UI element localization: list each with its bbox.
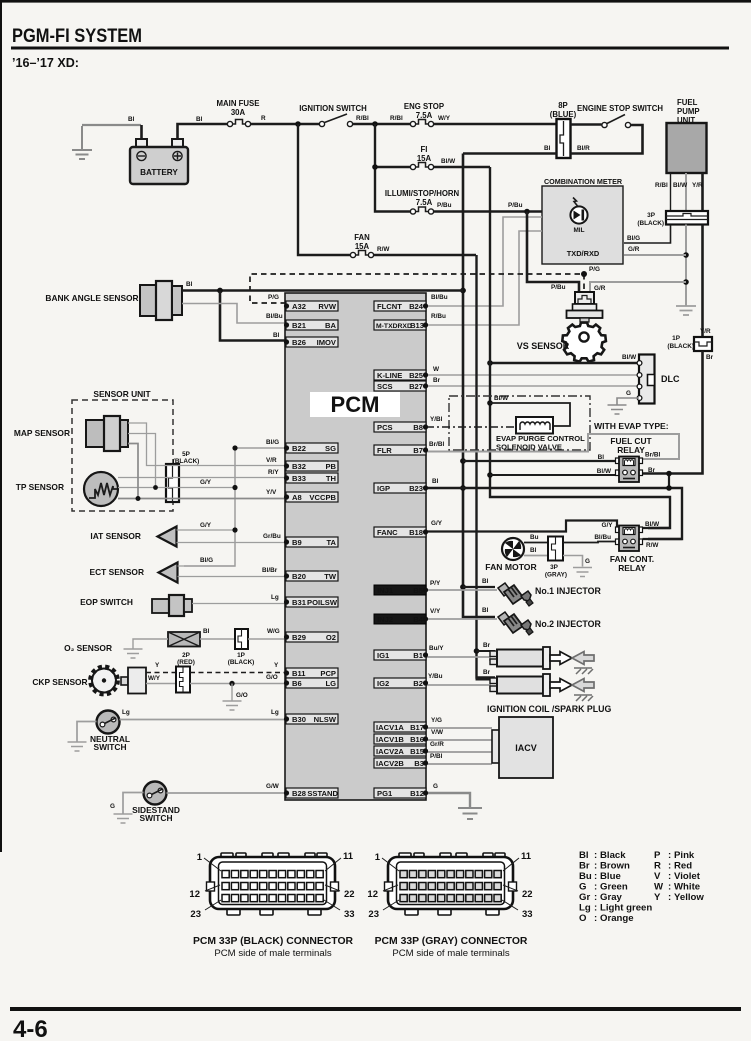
svg-text:IMOV: IMOV [317,338,337,347]
svg-text:Black: Black [600,850,626,861]
pin B22 SG [284,443,338,453]
svg-text::: : [668,861,671,872]
wire 3P fan G to ground [563,556,583,567]
pin B29 O2 [284,632,338,642]
svg-text:2P: 2P [182,652,191,659]
svg-text:B7: B7 [413,446,423,455]
PCM 33P GRAY connector drawing [367,851,532,959]
svg-text:RELAY: RELAY [617,445,645,455]
svg-text::: : [594,882,597,893]
svg-text:12: 12 [189,889,200,900]
wire neutral to ground [77,722,97,742]
svg-text:ECT SENSOR: ECT SENSOR [90,567,144,577]
page top border [0,0,751,3]
ground (O2) [124,649,143,658]
ground (DLC) [608,405,627,414]
svg-text:B5: B5 [413,586,423,595]
svg-text:EOP SWITCH: EOP SWITCH [80,597,133,607]
svg-text:FAN: FAN [354,233,370,242]
wire TP Y/V to A8 [118,498,286,500]
wire IACV1B V/W [426,739,492,741]
wire bank angle Bl to bus [182,289,463,292]
svg-text::: : [594,850,597,861]
svg-text:Bl/Bu: Bl/Bu [594,534,611,541]
wire INJ1 P/Y [426,589,497,591]
svg-text:TA: TA [326,538,336,547]
wire Bl/W branch to fuel cut relay [490,474,615,476]
svg-text:IG2: IG2 [377,679,389,688]
svg-text:30A: 30A [231,108,246,117]
svg-text:3P: 3P [550,564,559,571]
svg-text:Gr/R: Gr/R [430,741,444,748]
svg-text:(BLACK): (BLACK) [667,343,694,350]
svg-text:P: P [654,850,661,861]
svg-text::: : [594,913,597,924]
EOP switch [80,595,192,616]
wire TP wiper R/Y to B33 [118,477,286,479]
wire P/Bu branch down to VS sensor [527,212,579,296]
svg-text:Y: Y [155,662,160,669]
svg-text:G: G [626,390,631,397]
junction R/W coil1 [474,648,480,654]
wire K-LINE W to DLC [426,374,639,376]
svg-text:PCM: PCM [331,392,380,417]
svg-text::: : [594,892,597,903]
svg-text:B3: B3 [414,759,424,768]
svg-text:IACV2A: IACV2A [376,747,404,756]
svg-text:B4: B4 [413,615,423,624]
svg-text:Bl: Bl [482,578,489,585]
svg-text:Bl/W: Bl/W [441,158,456,165]
wire SCS Br to DLC [426,385,639,387]
wire MAP VCC to Y/V line [128,444,138,499]
No.2 injector [498,612,533,635]
svg-text:R/Bu: R/Bu [431,313,446,320]
svg-text:NLSW: NLSW [314,715,337,724]
svg-text:B11: B11 [292,669,306,678]
svg-text:R/W: R/W [646,542,659,549]
wire ignition switch to eng stop fuse [353,123,410,126]
svg-text:Gr/Bu: Gr/Bu [263,533,281,540]
MIL lamp icon [570,198,587,224]
svg-text:B28: B28 [292,789,306,798]
ground (CKP G/O) [223,701,242,710]
svg-text:3P: 3P [647,212,656,219]
svg-text:MIL: MIL [573,227,584,234]
svg-text:33: 33 [344,909,355,920]
svg-text:11: 11 [521,851,532,862]
pin B20 TW [284,571,338,581]
junction Bl/W fuel cut relay [487,472,493,478]
svg-text:G: G [433,783,438,790]
ignition switch [299,104,367,127]
IAT sensor [90,527,176,547]
svg-text:G: G [579,882,586,893]
svg-text:B31: B31 [292,598,307,607]
svg-text:B25: B25 [409,371,424,380]
svg-text:B16: B16 [410,735,424,744]
fan cont relay [610,526,654,574]
svg-text:FANC: FANC [377,528,398,537]
wire FANC G/Y B18 [426,521,617,532]
wire fuel cut relay Bl [463,460,616,462]
wire IAT G/Y [177,529,236,531]
ground (sidestand) [114,814,133,823]
svg-text:Bu: Bu [530,534,539,541]
svg-text:O₂ SENSOR: O₂ SENSOR [64,643,112,653]
ground (fuel pump G/R) [676,306,696,315]
svg-text:Br: Br [433,377,441,384]
pin B30 NLSW [284,714,338,724]
evap purge control solenoid valve [496,417,585,452]
footer rule [10,1007,741,1011]
pin B32 PB [284,461,338,471]
svg-text:SOLENOID VALVE: SOLENOID VALVE [496,443,562,452]
TP sensor [16,472,118,506]
wire INJ2 V/Y [426,618,497,620]
wire fan motor Bu [524,542,548,544]
svg-text:B33: B33 [292,474,306,483]
svg-text:7.5A: 7.5A [416,198,433,207]
svg-text:R/Bl: R/Bl [655,182,668,189]
fan motor [485,538,537,572]
svg-text:G/Y: G/Y [200,479,212,486]
pin IACV1A B17 [374,722,428,732]
svg-text:R/Bl: R/Bl [356,115,369,122]
svg-text:Y/R: Y/R [692,182,703,189]
svg-text:INJ1: INJ1 [377,586,394,595]
wire Bl branch injector1 [463,586,495,588]
pin IACV2B B3 [374,758,428,768]
evap dash-dot box [449,396,590,450]
fuse ILLUMI/STOP/HORN 7.5A [385,189,460,214]
pin INJ1 B5 (black) [374,585,428,595]
fuse FI 15A [410,145,433,170]
wire O2 Bl to 1P connector [200,638,235,640]
main fuse 30A [217,99,260,127]
svg-text:PCM 33P (GRAY) CONNECTOR: PCM 33P (GRAY) CONNECTOR [375,936,528,947]
wire Y dashed 2P to B11 [190,672,286,674]
svg-text:Bl: Bl [579,850,589,861]
svg-text:B8: B8 [413,423,423,432]
svg-text:15A: 15A [417,154,432,163]
svg-text:Light green: Light green [600,903,652,914]
wire DLC G to ground [617,398,639,405]
wire Bl/W vertical (FI fuse) [490,167,670,528]
svg-text:G/Y: G/Y [431,520,443,527]
combination meter [542,177,623,264]
wire 8P to engine stop switch [571,123,602,125]
wire G/R VS sensor to fuel pump ground [590,282,686,295]
pin FLCNT B24 [374,301,428,311]
svg-text:IACV1B: IACV1B [376,735,404,744]
svg-text:CKP SENSOR: CKP SENSOR [32,677,87,687]
wire 3P fan to relay Bl/Bu [563,542,616,543]
svg-text:IGP: IGP [377,484,390,493]
pin A32 RVW [284,301,338,311]
svg-text:Bl/G: Bl/G [200,557,213,564]
wire Y/R down to 1P connector [701,225,704,337]
IACV [492,717,553,778]
svg-text:B22: B22 [292,444,306,453]
svg-text:DLC: DLC [661,374,680,384]
junction bank angle Bl [217,288,223,294]
svg-text:Bl: Bl [186,281,193,288]
svg-text:SENSOR UNIT: SENSOR UNIT [93,389,151,399]
ground (PG1) [458,808,482,819]
junction Bl bus / injector1 [460,584,466,590]
connector 8P (BLUE) [550,101,577,158]
svg-text:R: R [261,115,266,122]
sidestand switch [132,782,180,824]
wire CKP Y dashed to 2P [146,672,176,674]
svg-text:P/Y: P/Y [430,580,441,587]
svg-text:PUMP: PUMP [677,107,700,116]
svg-text:PCM side of male terminals: PCM side of male terminals [392,948,509,959]
pin PCS B8 [374,422,428,432]
svg-text:W: W [433,366,440,373]
wire eng stop fuse to 8P connector [434,123,557,125]
connector 1P (BLACK) O2 [228,629,255,666]
wire Br staircase from fuel cut relay [668,474,670,489]
svg-text:B2: B2 [413,679,423,688]
svg-text:P/G: P/G [589,266,600,273]
svg-text:B26: B26 [292,338,306,347]
svg-text:Y/V: Y/V [266,489,277,496]
svg-text:23: 23 [368,909,379,920]
wire Bl vertical bus (8P to injectors) [463,154,495,618]
svg-text:TH: TH [326,474,336,483]
wire MAP to V/R B32 [128,423,286,466]
pin IACV1B B16 [374,734,428,744]
svg-text:Blue: Blue [600,871,621,882]
svg-text:7.5A: 7.5A [416,111,433,120]
wire IACV2B P/Bl [426,763,492,765]
svg-text:BANK ANGLE SENSOR: BANK ANGLE SENSOR [45,293,138,303]
wire IACV1A Y/G [426,727,492,729]
wire battery + to main fuse [142,124,228,139]
junction G/O ground [229,681,234,686]
svg-text:B23: B23 [409,484,423,493]
svg-text:Y/Bl: Y/Bl [430,416,443,423]
svg-text:G/O: G/O [236,692,248,699]
svg-text:B30: B30 [292,715,306,724]
svg-text:W: W [654,882,664,893]
svg-text:IGNITION COIL /SPARK PLUG: IGNITION COIL /SPARK PLUG [487,704,611,714]
wire B13 R/Bu to meter [426,231,542,325]
pin SCS B27 [374,381,428,391]
connector 3P (GRAY) fan [545,537,567,579]
fuse FAN 15A [350,233,373,258]
svg-text:V/R: V/R [266,457,277,464]
junction G/R vs sensor [683,279,689,285]
svg-text:15A: 15A [355,242,370,251]
wire battery ground Bl [82,124,141,126]
svg-text:R/Y: R/Y [268,469,279,476]
svg-text:Y: Y [274,662,279,669]
wire TP SG G/Y to B22 junction [118,487,235,489]
svg-text:Pink: Pink [674,850,695,861]
svg-text:P/G: P/G [268,294,279,301]
svg-text:Gray: Gray [600,892,623,903]
svg-text:Bl: Bl [530,547,537,554]
engine stop switch [577,104,663,128]
connector 5P (BLACK) [166,451,199,502]
wire IAT Gr/Bu to B9 [177,542,287,544]
svg-text:Y/Bu: Y/Bu [428,673,443,680]
wire EOP Lg to B31 [192,603,286,605]
svg-text:No.2 INJECTOR: No.2 INJECTOR [535,619,601,629]
svg-text::: : [668,892,671,903]
ground (battery) [72,126,92,159]
svg-text:1: 1 [197,852,203,863]
sensor unit dashed box [72,389,173,511]
dashed wire P/G A32 to VS sensor [250,274,584,303]
svg-text:VCCPB: VCCPB [309,493,336,502]
svg-text:G/O: G/O [266,674,278,681]
junction G/R meter [683,252,689,258]
svg-text::: : [668,882,671,893]
fuse ENG STOP 7.5A [404,102,444,127]
bank angle sensor [45,281,182,320]
svg-text:PB: PB [325,462,336,471]
svg-text:PCS: PCS [377,423,393,432]
wire G/O 2P to B6 [190,683,286,685]
ground (fan) [573,568,592,577]
wire FAN fuse R/W to bus [374,254,476,256]
pin PG1 B12 [374,788,428,798]
pin IG1 B1 [374,650,428,660]
svg-text:PCM 33P (BLACK) CONNECTOR: PCM 33P (BLACK) CONNECTOR [193,936,354,947]
svg-text:Y/R: Y/R [700,328,711,335]
svg-text:Red: Red [674,861,692,872]
svg-text:Bl: Bl [544,145,551,152]
svg-text:Br: Br [706,354,714,361]
svg-text:POILSW: POILSW [307,598,338,607]
svg-text:Lg: Lg [579,903,591,914]
svg-text:TP SENSOR: TP SENSOR [16,482,64,492]
svg-text:B18: B18 [409,528,423,537]
svg-text:RELAY: RELAY [618,563,646,573]
pin K-LINE B25 [374,370,428,380]
svg-text:Bl/G: Bl/G [627,235,640,242]
svg-text:Lg: Lg [122,709,130,716]
svg-text:Br: Br [483,642,491,649]
svg-text:23: 23 [190,909,201,920]
svg-text:G/Y: G/Y [200,522,212,529]
svg-text:Bl/Bu: Bl/Bu [431,294,448,301]
wire 3P to meter Bl/G [624,225,671,244]
wire FLR Br/Bl to fuel cut relay [426,434,679,459]
svg-text:5P: 5P [182,451,191,458]
svg-text:B27: B27 [409,382,423,391]
wire 3P gray G/R down to ground [685,225,687,307]
wire IG2 Y/Bu [426,685,495,688]
CKP sensor [32,667,146,694]
svg-text:B15: B15 [410,747,425,756]
wire coil2 Br [477,678,496,680]
svg-text:P/Bu: P/Bu [437,202,452,209]
svg-text:B29: B29 [292,633,306,642]
svg-text:(BLUE): (BLUE) [550,110,577,119]
svg-text::: : [668,850,671,861]
fuel cut relay [610,436,652,482]
svg-text:PGM-FI SYSTEM: PGM-FI SYSTEM [12,25,142,47]
svg-text:33: 33 [522,909,533,920]
svg-text:22: 22 [522,889,533,900]
PCM 33P BLACK connector drawing [189,851,354,959]
No.1 injector [498,583,533,606]
svg-text:FLR: FLR [377,446,392,455]
svg-text:P/Bu: P/Bu [551,284,566,291]
svg-text:1P: 1P [672,335,681,342]
svg-text:Bl: Bl [196,116,203,123]
pin FLR B7 [374,445,428,455]
wire MAP to SG line [128,434,156,488]
svg-text:1P: 1P [237,652,246,659]
svg-text:ILLUMI/STOP/HORN: ILLUMI/STOP/HORN [385,189,460,198]
wire O2 left to ground [133,639,168,649]
svg-text:VS SENSOR: VS SENSOR [517,341,570,351]
svg-text:BA: BA [325,321,336,330]
ECT sensor [90,563,178,583]
wire main fuse branch down to FAN fuse [298,124,351,255]
ground (neutral) [68,742,87,751]
PCM label box [310,392,400,417]
svg-text:Br/Bl: Br/Bl [645,452,660,459]
svg-text:Bu/Y: Bu/Y [429,645,444,652]
svg-text:P/Bu: P/Bu [508,202,523,209]
pin INJ2 B4 (black) [374,614,428,624]
svg-text:PCM side of male terminals: PCM side of male terminals [214,948,331,959]
svg-text:G/R: G/R [594,285,606,292]
svg-text:MAP SENSOR: MAP SENSOR [14,428,70,438]
svg-text:Bl: Bl [432,478,439,485]
svg-text:V/Y: V/Y [430,608,441,615]
pin A8 VCCPB [284,492,338,502]
svg-text:(BLACK): (BLACK) [637,220,664,227]
svg-text:IGNITION SWITCH: IGNITION SWITCH [299,104,367,113]
svg-text:Bl: Bl [482,607,489,614]
wire PCS Y/Bl dash-dot to solenoid [426,426,516,428]
svg-text:Br: Br [483,669,491,676]
MAP sensor [14,416,128,451]
svg-text:LG: LG [325,679,336,688]
svg-text:(RED): (RED) [177,659,195,666]
svg-text:W/G: W/G [267,628,280,635]
junction Bl bus / fuel cut relay [460,458,466,464]
svg-text:SSTAND: SSTAND [307,789,338,798]
svg-text:FUEL: FUEL [677,98,698,107]
pin B31 POILSW [284,597,338,607]
svg-text:IACV1A: IACV1A [376,723,404,732]
svg-text:’16–’17 XD:: ’16–’17 XD: [12,56,79,70]
svg-text:Yellow: Yellow [674,892,704,903]
wire ignition branch down to FI and ILLUMI fuses [375,124,411,212]
svg-text:G: G [585,558,590,565]
svg-text::: : [594,903,597,914]
junction P/G [581,271,587,277]
wire main fuse to ignition switch [251,123,320,126]
svg-text:R: R [654,861,661,872]
connector 1P (BLACK) fuel pump Br [667,335,712,351]
junction Bl bus / IGP line [460,485,466,491]
wire FI fuse Bl/W to vertical bus [434,166,490,168]
pin M-TXDRXD B13 [374,320,428,330]
svg-text:M-TXDRXD: M-TXDRXD [376,323,412,330]
title rule [11,47,729,50]
svg-text:RVW: RVW [318,302,336,311]
